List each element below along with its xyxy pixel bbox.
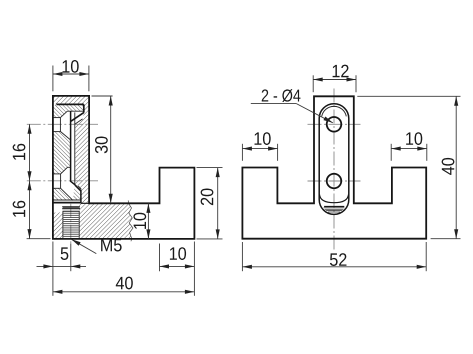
side view part outline xyxy=(53,96,195,239)
dim 10 (right block) xyxy=(390,144,392,161)
slot top chamfer arc xyxy=(322,106,347,116)
M5 thread run-out lines xyxy=(62,206,80,208)
slot bottom relief curve xyxy=(320,194,349,202)
section hatch: clamp band under top xyxy=(53,104,84,117)
centerline hole 2 xyxy=(308,180,361,182)
slot 2 cavity edges xyxy=(53,173,61,175)
section hatch: foot right of thread with break line xyxy=(79,204,133,239)
foot top edge xyxy=(53,202,82,204)
front view part outline xyxy=(242,96,426,238)
hole 1 (Ø4) xyxy=(327,117,342,132)
centerline M5 thread xyxy=(70,204,72,244)
dim 10 (arm thickness) xyxy=(147,203,149,239)
dim 12 (tower width) xyxy=(312,75,314,92)
M5 thread bore walls xyxy=(62,212,64,238)
slot 1 cavity edges xyxy=(53,117,61,119)
front view centerline vertical xyxy=(333,89,335,253)
central slot (stadium) xyxy=(319,104,349,215)
dim 10 (bottom right block width) xyxy=(159,244,161,272)
hole 2 (Ø4) xyxy=(327,174,342,189)
dim 16 (upper slot pitch) xyxy=(29,124,31,181)
dim 5 (thread position) xyxy=(52,242,54,296)
dim 30 (bar height) xyxy=(92,95,113,97)
M5 thread crest lines xyxy=(63,212,79,214)
dim 52 (overall width) xyxy=(241,242,243,271)
label M5 with leader xyxy=(71,239,96,253)
dim 10 (left block) xyxy=(241,144,243,161)
label 2-Ø4 with leader xyxy=(262,89,301,102)
section hatch: band below lower slot xyxy=(53,188,73,200)
dim 40 (overall height) xyxy=(357,95,460,97)
section hatch: top band of profile bar xyxy=(53,96,89,104)
centerline hole 1 xyxy=(308,123,361,125)
section hatch: foot left of M5 thread xyxy=(53,212,63,238)
thread seen in slot bottom xyxy=(324,205,344,207)
tenon channel lines xyxy=(74,112,76,183)
dim 20 (end block height) xyxy=(197,167,223,169)
centerline slot 1 xyxy=(27,123,98,125)
dim 40 (overall length) xyxy=(53,291,195,293)
centerline slot 2 xyxy=(27,180,98,182)
dim 10 (top, bar width) xyxy=(52,66,54,92)
slot 1 clamp section thick edges xyxy=(56,103,84,105)
section hatch: left column between slots xyxy=(53,132,71,174)
dim 16 (lower slot pitch) xyxy=(29,181,31,239)
break line (freehand) xyxy=(128,200,133,241)
section hatch: right wall of profile bar xyxy=(75,104,89,203)
